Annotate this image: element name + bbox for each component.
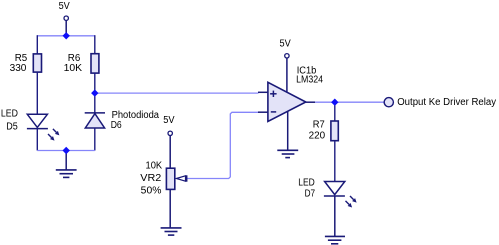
wire R7 to D7 <box>334 141 336 182</box>
svg-text:50%: 50% <box>141 186 162 197</box>
ground (left) <box>56 151 77 178</box>
wire VR2 to ground <box>169 189 171 228</box>
photodiode D6 <box>85 113 105 128</box>
svg-text:10K: 10K <box>146 160 163 171</box>
op-amp U1 IC1b <box>268 82 306 121</box>
junction photodiode node <box>91 89 98 96</box>
svg-text:220: 220 <box>309 131 326 142</box>
pin + input stub <box>258 91 268 93</box>
wire junction to R7 <box>334 102 336 121</box>
ground (VR2) <box>161 228 182 235</box>
wire D7 to ground <box>334 196 336 237</box>
resistor R7 <box>331 121 338 141</box>
wire bottom rail <box>37 150 95 152</box>
svg-text:VR2: VR2 <box>140 173 161 184</box>
ground (D7) <box>325 236 345 243</box>
svg-text:330: 330 <box>10 63 27 74</box>
wire D5 to bottom rail <box>36 128 38 150</box>
output terminal <box>384 98 393 107</box>
svg-text:10K: 10K <box>64 63 83 74</box>
svg-text:D7: D7 <box>305 188 316 199</box>
svg-text:LED: LED <box>1 108 18 119</box>
svg-text:5V: 5V <box>163 115 175 126</box>
LED D7 <box>324 182 357 208</box>
svg-text:Output Ke Driver Relay: Output Ke Driver Relay <box>397 97 496 108</box>
svg-text:5V: 5V <box>280 39 291 50</box>
wire photodiode node to op-amp + input <box>95 92 259 94</box>
wire to R6 <box>94 35 96 54</box>
svg-text:D5: D5 <box>6 122 18 133</box>
svg-text:R7: R7 <box>313 119 325 130</box>
svg-text:D6: D6 <box>111 120 122 131</box>
wire output net <box>315 101 384 103</box>
pin op-amp output stub <box>306 101 315 103</box>
power terminal 5V (VR2) <box>163 115 175 168</box>
wire R5 to D5 <box>36 72 38 114</box>
resistor R5 <box>33 54 41 72</box>
power terminal 5V (op-amp) <box>280 39 291 92</box>
potentiometer VR2 <box>166 168 186 189</box>
resistor R6 <box>91 54 99 73</box>
junction top rail <box>63 32 70 39</box>
ground (op-amp) <box>277 111 298 158</box>
wire D6 to bottom rail <box>94 128 96 151</box>
svg-text:5V: 5V <box>59 1 70 12</box>
wire node to D6 <box>94 93 96 113</box>
junction output net <box>331 99 338 106</box>
wire VR2 wiper to op-amp - input <box>187 112 258 178</box>
junction bottom rail <box>63 147 70 154</box>
wire top horizontal rail <box>37 35 95 37</box>
svg-text:LM324: LM324 <box>296 75 323 86</box>
power terminal 5V (left) <box>59 1 70 33</box>
LED D5 <box>27 114 60 140</box>
wire to R5 <box>36 35 38 54</box>
svg-text:LED: LED <box>298 178 315 189</box>
wire R6 to node <box>94 73 96 93</box>
